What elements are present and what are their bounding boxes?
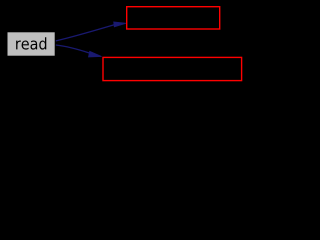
node top (red, truncated) xyxy=(127,7,220,29)
arrowhead to bottom node xyxy=(89,51,102,57)
wire edge read -> top node xyxy=(56,25,114,41)
node read (current function) xyxy=(7,32,56,57)
wire edge read -> bottom node xyxy=(56,45,90,53)
arrowhead to top node xyxy=(114,22,127,27)
node bottom (red, truncated) xyxy=(103,57,242,80)
